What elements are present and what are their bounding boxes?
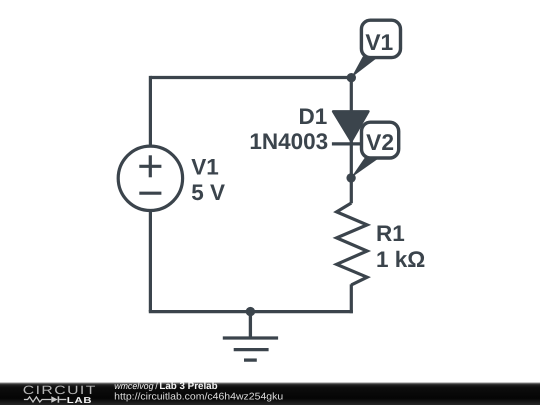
svg-text:R1: R1	[376, 221, 405, 246]
CircuitLab logo diode	[51, 396, 59, 402]
resistor R1	[337, 203, 368, 285]
node V2 callout box	[362, 122, 399, 158]
wire right vertical lower	[350, 284, 353, 313]
wire left vertical upper	[149, 76, 152, 146]
svg-text:5 V: 5 V	[191, 180, 225, 205]
label D1	[249, 104, 328, 154]
wire top horizontal	[150, 76, 351, 79]
node V2 callout tail	[351, 156, 382, 178]
node V1 callout box	[361, 20, 400, 57]
svg-text:LAB: LAB	[67, 395, 93, 405]
node dot ground junction	[246, 307, 255, 316]
svg-text:D1: D1	[299, 104, 328, 129]
node dot diode cathode	[346, 173, 355, 182]
svg-text:V2: V2	[366, 129, 394, 155]
voltage source V1	[118, 146, 182, 210]
CircuitLab logo resistor squiggle	[24, 397, 66, 402]
ground	[223, 312, 278, 361]
svg-text:/: /	[155, 381, 158, 392]
wire bottom horizontal	[149, 310, 353, 313]
node V1 callout tail	[351, 57, 379, 78]
wire left vertical lower	[149, 211, 152, 312]
diode D1	[332, 111, 371, 143]
svg-text:V1: V1	[191, 154, 219, 179]
wire right vertical upper	[350, 78, 353, 204]
label V1 value	[191, 154, 225, 205]
svg-text:http://circuitlab.com/c46h4wz2: http://circuitlab.com/c46h4wz254gku	[114, 392, 283, 403]
svg-text:V1: V1	[365, 29, 393, 55]
node dot top right	[347, 73, 356, 82]
svg-text:Lab 3 Prelab: Lab 3 Prelab	[159, 381, 217, 392]
svg-text:wmcelvog: wmcelvog	[114, 381, 153, 391]
svg-text:1 kΩ: 1 kΩ	[376, 247, 425, 272]
label R1	[376, 221, 425, 272]
svg-text:1N4003: 1N4003	[249, 129, 328, 154]
